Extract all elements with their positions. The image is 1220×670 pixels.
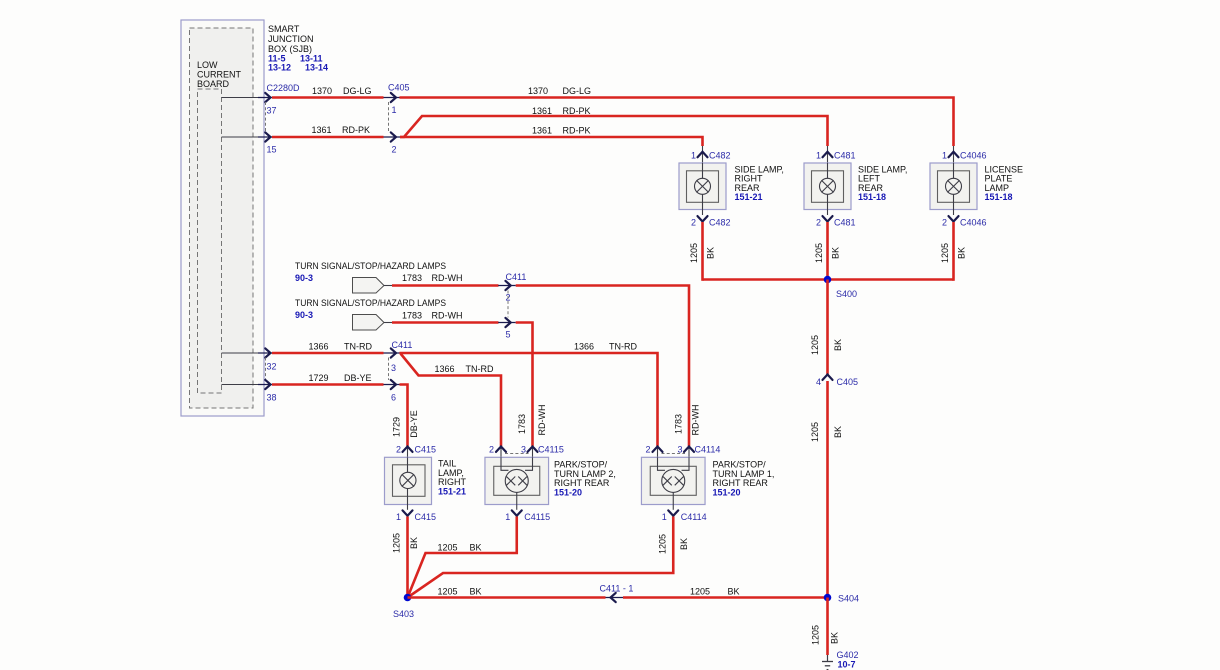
label C4046 lamp name (985, 164, 1024, 202)
svg-text:C481: C481 (834, 150, 856, 160)
svg-text:1783: 1783 (517, 414, 527, 434)
wire 1366 TN-RD branch to park lamp 2 (401, 354, 502, 447)
svg-text:1205: 1205 (810, 422, 820, 442)
connector C411 dashed pins 2-5 (507, 291, 509, 318)
svg-text:151-18: 151-18 (858, 192, 886, 202)
svg-text:38: 38 (267, 393, 277, 403)
svg-text:C405: C405 (388, 83, 410, 93)
label C481 lamp name (858, 164, 907, 202)
wire SJB pin 38 internal (222, 384, 263, 386)
svg-text:1205: 1205 (438, 587, 458, 597)
svg-text:C4046: C4046 (960, 217, 987, 227)
svg-text:90-3: 90-3 (295, 273, 313, 283)
svg-text:1: 1 (662, 512, 667, 522)
svg-text:1783: 1783 (402, 311, 422, 321)
svg-text:1205: 1205 (814, 243, 824, 263)
lamp C4115 pin 2 arrow (489, 445, 506, 458)
svg-text:C411: C411 (392, 340, 413, 350)
wire 1361 RD-PK branch to side lamp right (400, 126, 703, 147)
wire 1729 DB-YE segment SJB to C411 (272, 373, 384, 385)
svg-text:C4114: C4114 (681, 512, 707, 522)
connector C2280D pin 32 arrow (258, 348, 277, 371)
svg-text:SMART: SMART (268, 24, 300, 34)
wire 1205 BK S404 to G402 (811, 598, 840, 656)
connector C411 pin 3 arrow (384, 340, 413, 373)
label 1783 RD-WH vertical at park lamp 2 (517, 405, 547, 436)
svg-text:32: 32 (267, 362, 277, 372)
svg-text:1366: 1366 (574, 342, 594, 352)
lamp C481 pin 1 arrow (816, 146, 856, 163)
connector C2280D dashed pins 32-38 (265, 358, 267, 381)
svg-text:S403: S403 (393, 609, 414, 619)
svg-text:2: 2 (942, 217, 947, 227)
svg-text:TN-RD: TN-RD (344, 342, 372, 352)
svg-text:BK: BK (830, 632, 840, 644)
svg-text:1205: 1205 (690, 587, 710, 597)
lamp C4114 pin 2 arrow (645, 445, 662, 458)
svg-text:1370: 1370 (528, 86, 548, 96)
low current board dashed box (190, 28, 254, 408)
svg-text:C481: C481 (834, 217, 856, 227)
smart junction box U-SJB outline (181, 20, 264, 416)
svg-text:C405: C405 (837, 377, 859, 387)
svg-text:1361: 1361 (532, 106, 552, 116)
svg-text:BK: BK (409, 537, 419, 549)
svg-text:C2280D: C2280D (267, 83, 301, 93)
wire 1783 RD-WH C411 pin 5 to park lamp 2 (516, 323, 533, 447)
label C4114 park stop turn lamp (713, 460, 775, 498)
svg-text:1205: 1205 (811, 625, 821, 645)
label SMART JUNCTION BOX (SJB) (268, 24, 328, 73)
label C4115 park stop turn lamp (554, 460, 616, 498)
wire 1370 DG-LG segment C405 to license plate lamp (400, 86, 954, 146)
svg-text:G402: G402 (837, 650, 859, 660)
svg-text:TURN SIGNAL/STOP/HAZARD LAMPS: TURN SIGNAL/STOP/HAZARD LAMPS (295, 261, 446, 271)
svg-text:C415: C415 (415, 445, 437, 455)
wire feed 2 lead (384, 322, 392, 324)
lamp C415 tail lamp right body (385, 457, 432, 510)
connector C411 dashed pins 3-6 (388, 358, 390, 381)
ground G402 (822, 650, 859, 670)
svg-text:2: 2 (816, 217, 821, 227)
svg-text:1: 1 (691, 150, 696, 160)
svg-text:1: 1 (942, 150, 947, 160)
wire 1366 TN-RD segment SJB to C411 (272, 342, 384, 354)
svg-text:1205: 1205 (940, 243, 950, 263)
svg-text:TN-RD: TN-RD (466, 364, 494, 374)
lamp C415 pin 1 arrow (396, 510, 436, 522)
svg-text:10-7: 10-7 (838, 660, 856, 670)
svg-text:151-18: 151-18 (985, 192, 1013, 202)
svg-text:RD-WH: RD-WH (537, 405, 547, 436)
svg-text:2: 2 (396, 445, 401, 455)
svg-text:1370: 1370 (312, 86, 332, 96)
svg-text:1205: 1205 (438, 543, 458, 553)
lamp C482 pin 2 arrow (691, 216, 731, 227)
lamp C4046 pin 1 arrow (942, 146, 987, 163)
svg-text:RD-WH: RD-WH (432, 311, 463, 321)
svg-text:BK: BK (831, 247, 841, 259)
label tail lamp right (438, 459, 467, 497)
svg-text:1366: 1366 (309, 342, 329, 352)
svg-text:DB-YE: DB-YE (409, 410, 419, 438)
svg-text:13-12: 13-12 (268, 62, 291, 72)
svg-text:2: 2 (691, 217, 696, 227)
svg-text:C4115: C4115 (538, 445, 564, 455)
svg-text:13-14: 13-14 (305, 62, 328, 72)
svg-text:DG-LG: DG-LG (563, 86, 592, 96)
svg-text:BOARD: BOARD (197, 79, 230, 89)
wire 1205 BK S403 to C411-1 (408, 587, 606, 598)
svg-text:BK: BK (728, 587, 740, 597)
svg-text:151-20: 151-20 (713, 487, 741, 497)
svg-text:1: 1 (392, 105, 397, 115)
wire 1783 RD-WH feed 1 to C411 (392, 273, 499, 286)
svg-text:C4115: C4115 (524, 512, 550, 522)
svg-text:C4114: C4114 (695, 445, 721, 455)
wire 1205 BK park lamp 2 to S403 (408, 517, 517, 598)
svg-text:3: 3 (391, 363, 396, 373)
connector C2280D pin 37 arrow (258, 83, 300, 116)
svg-text:RD-PK: RD-PK (342, 125, 370, 135)
connector C4115 dashed pins 2-3 (505, 453, 529, 455)
svg-text:1: 1 (816, 150, 821, 160)
lamp C4115 body (485, 457, 549, 510)
svg-text:2: 2 (489, 445, 494, 455)
svg-text:DB-YE: DB-YE (344, 373, 372, 383)
splice S404 (824, 594, 859, 604)
splice S400 (824, 276, 857, 299)
svg-text:37: 37 (267, 106, 277, 116)
wire 1205 BK C405 pin 4 to S404 (810, 381, 843, 598)
svg-text:BK: BK (470, 543, 482, 553)
lamp C415 pin 2 arrow (396, 445, 436, 458)
lamp C4046 body (930, 163, 977, 215)
svg-text:1729: 1729 (392, 417, 402, 437)
svg-text:1: 1 (505, 512, 510, 522)
svg-text:RD-WH: RD-WH (691, 405, 701, 436)
wire feed 1 lead (384, 285, 392, 287)
lamp C4115 pin 1 arrow (505, 510, 550, 522)
wire 1205 BK ground bus S400 (703, 278, 954, 281)
connector C405 dashed pins 1-2 (388, 102, 390, 132)
label C482 lamp name (735, 164, 784, 202)
svg-text:151-21: 151-21 (438, 486, 466, 496)
svg-text:151-21: 151-21 (735, 192, 763, 202)
svg-text:6: 6 (391, 393, 396, 403)
wire 1783 RD-WH C411 pin 2 to park lamp 1 (516, 286, 689, 447)
connector C4114 dashed pins 2-3 (662, 453, 686, 455)
lamp C4114 pin 1 arrow (662, 510, 707, 522)
svg-text:BK: BK (679, 538, 689, 550)
wire 1205 BK park lamp 1 to S403 (408, 517, 690, 598)
wire 1205 BK C411-1 to S404 (623, 587, 828, 598)
lamp C481 body (804, 163, 851, 215)
svg-text:2: 2 (645, 445, 650, 455)
svg-text:S400: S400 (836, 289, 857, 299)
connector C411 pin 2 arrow (498, 272, 526, 303)
svg-text:1783: 1783 (674, 414, 684, 434)
svg-text:TURN SIGNAL/STOP/HAZARD LAMPS: TURN SIGNAL/STOP/HAZARD LAMPS (295, 298, 446, 308)
svg-text:1366: 1366 (435, 364, 455, 374)
svg-text:1361: 1361 (312, 125, 332, 135)
off-page connector feed 2 (353, 315, 385, 331)
lamp C482 pin 1 arrow (691, 146, 731, 163)
wire 1370 DG-LG segment SJB to C405 (272, 86, 384, 98)
connector C405 pin 1 arrow (384, 83, 410, 116)
svg-text:C411 - 1: C411 - 1 (600, 584, 634, 594)
connector C405 pin 2 arrow (384, 132, 402, 154)
svg-text:C415: C415 (415, 512, 437, 522)
svg-text:1: 1 (396, 512, 401, 522)
svg-text:1205: 1205 (810, 335, 820, 355)
connector C2280D dashed pins 37-15 (265, 102, 267, 132)
svg-text:C482: C482 (709, 217, 731, 227)
wire 1205 BK below C481 (814, 222, 841, 281)
svg-text:1729: 1729 (309, 373, 329, 383)
svg-text:2: 2 (392, 145, 397, 155)
svg-text:1205: 1205 (689, 243, 699, 263)
label turn signal stop hazard lamps feed 1 (295, 261, 446, 283)
svg-text:15: 15 (267, 145, 277, 155)
svg-text:4: 4 (816, 377, 821, 387)
label 1783 RD-WH vertical at park lamp 1 (674, 405, 701, 436)
wire 1205 BK below C4046 (940, 222, 967, 281)
wire SJB pin 15 internal (222, 136, 263, 138)
wire 1205 BK below C482 (689, 222, 716, 281)
svg-text:TN-RD: TN-RD (609, 342, 637, 352)
svg-text:RD-WH: RD-WH (432, 273, 463, 283)
svg-text:RD-PK: RD-PK (563, 126, 591, 136)
svg-text:DG-LG: DG-LG (343, 86, 372, 96)
svg-text:90-3: 90-3 (295, 310, 313, 320)
connector C2280D pin 15 arrow (258, 132, 277, 154)
svg-text:C482: C482 (709, 150, 731, 160)
svg-text:BK: BK (957, 247, 967, 259)
wire 1361 RD-PK branch to side lamp left (400, 106, 828, 146)
svg-text:5: 5 (506, 330, 511, 340)
wire 1361 RD-PK segment SJB to C405 (272, 125, 384, 137)
svg-text:1783: 1783 (402, 273, 422, 283)
svg-text:BOX (SJB): BOX (SJB) (268, 44, 312, 54)
wire 1729 DB-YE C411 pin 6 to tail lamp (392, 385, 420, 447)
svg-text:151-20: 151-20 (554, 487, 582, 497)
svg-text:RD-PK: RD-PK (563, 106, 591, 116)
svg-text:C4046: C4046 (960, 150, 987, 160)
label LOW CURRENT BOARD (197, 60, 242, 89)
splice S403 (393, 594, 414, 619)
lamp C4114 body (641, 457, 705, 510)
svg-text:1361: 1361 (532, 126, 552, 136)
connector C2280D pin 38 arrow (258, 380, 277, 403)
lamp C4115 pin 3 arrow (521, 445, 564, 458)
label turn signal stop hazard lamps feed 2 (295, 298, 446, 320)
wire SJB pin 32 internal (222, 352, 263, 354)
wire 1205 BK tail lamp to S403 (392, 517, 420, 598)
connector C405 pin 4 arrow (816, 375, 858, 388)
lamp C4114 pin 3 arrow (677, 445, 720, 458)
svg-text:BK: BK (706, 247, 716, 259)
connector C411 pin 5 arrow (498, 318, 516, 340)
svg-text:JUNCTION: JUNCTION (268, 34, 314, 44)
connector C411 - 1 inline arrow (600, 584, 634, 603)
lamp C4046 pin 2 arrow (942, 216, 987, 227)
svg-text:BK: BK (470, 587, 482, 597)
svg-text:1205: 1205 (392, 533, 402, 553)
svg-text:BK: BK (833, 339, 843, 351)
wire 1366 TN-RD C411 pin 3 to park lamp 1 (400, 342, 658, 447)
wire 1205 BK S400 to C405 pin 4 (810, 280, 843, 376)
svg-text:BK: BK (833, 426, 843, 438)
svg-text:1205: 1205 (658, 534, 668, 554)
off-page connector feed 1 (353, 278, 385, 294)
lamp C481 pin 2 arrow (816, 216, 856, 227)
wire SJB pin 37 internal (222, 97, 263, 99)
wire 1783 RD-WH feed 2 to C411 (392, 311, 499, 323)
svg-text:C411: C411 (506, 272, 527, 282)
low current board inner dashed box (198, 89, 222, 393)
lamp C482 body (679, 163, 726, 215)
connector C411 pin 6 arrow (384, 380, 402, 403)
svg-text:S404: S404 (838, 594, 859, 604)
